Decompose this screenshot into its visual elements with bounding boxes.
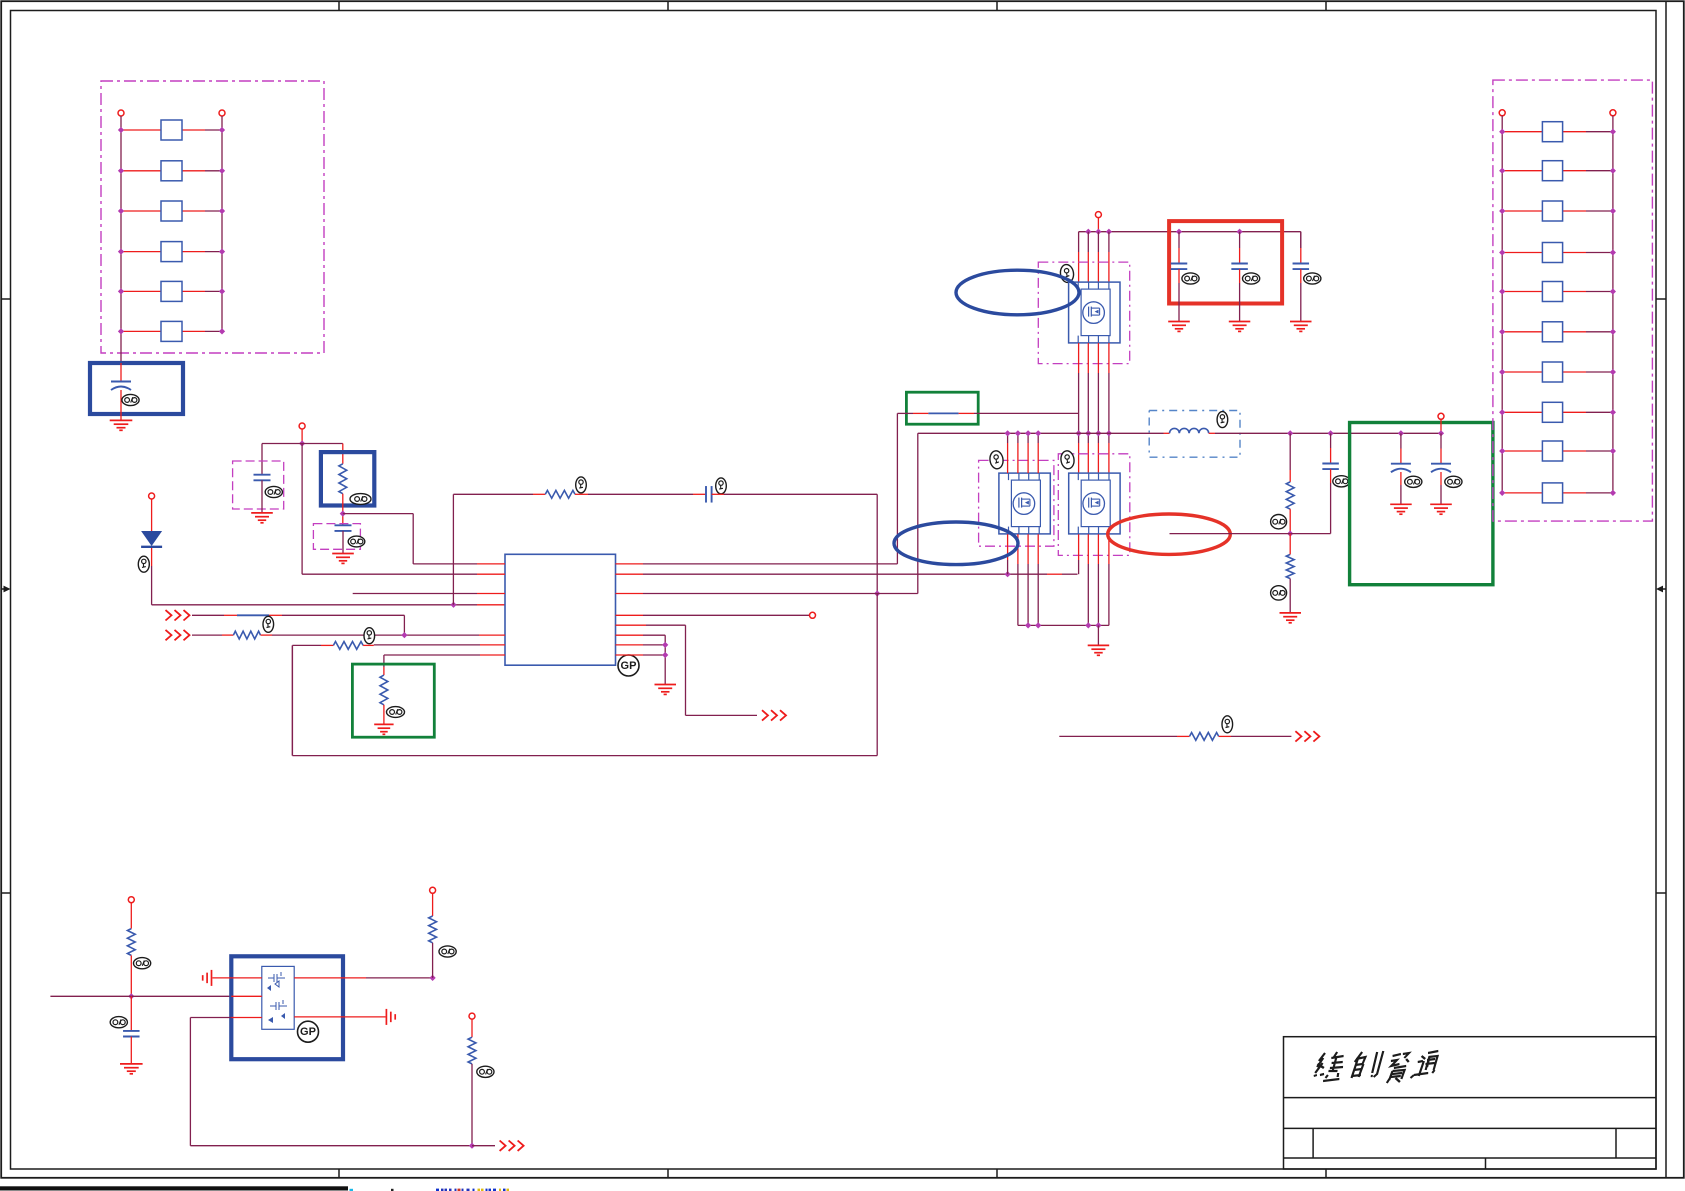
- resistor ladder dashed box RN2: [1493, 80, 1653, 521]
- capacitor C3 dashed box: [313, 524, 360, 550]
- resistor R15: [121, 290, 161, 292]
- terminal P8: [1499, 110, 1505, 116]
- page right margin line: [1665, 1, 1667, 1178]
- terminal P6: [1095, 212, 1101, 218]
- ground GND12: [1430, 503, 1452, 505]
- capacitor C4: [705, 486, 707, 503]
- junction JC1: [1176, 229, 1182, 235]
- label R3: [576, 477, 587, 493]
- junction J2: [340, 510, 346, 516]
- ground GND9: [1290, 321, 1312, 323]
- title block: [1284, 1037, 1657, 1169]
- label C3 GP: [348, 536, 365, 547]
- resistor R11: [121, 129, 161, 131]
- bottom clipped text fragment: [350, 1189, 354, 1191]
- inductor L1: [1164, 432, 1170, 434]
- wire bus to ground: [1097, 625, 1099, 645]
- wire pin R2 gate net: [616, 573, 644, 575]
- resistor R6: [383, 667, 385, 675]
- resistor R16: [121, 330, 161, 332]
- junction JM6: [1015, 430, 1021, 436]
- label R7 TW: [1271, 515, 1287, 529]
- label R2 GP: [350, 494, 371, 505]
- label C9 GP: [1405, 476, 1422, 487]
- label R6 GP: [387, 707, 405, 718]
- capacitor C2: [254, 474, 271, 476]
- junction J11: [1287, 530, 1293, 536]
- resistor R4: [192, 634, 222, 636]
- ground GND2: [251, 512, 273, 514]
- resistor R2: [339, 464, 347, 494]
- wire Q3 gate pin: [1078, 534, 1080, 560]
- ground GND8: [1229, 321, 1251, 323]
- IC U1: [505, 554, 616, 665]
- junction ladder2 L10: [1499, 490, 1505, 496]
- wire Q3 source pins: [1087, 534, 1089, 564]
- transistor Q1 dashed box: [1038, 262, 1129, 364]
- ferrite bead FB2: [897, 412, 913, 414]
- offpage arrows A5: [500, 1141, 506, 1151]
- transistor Q3 dashed box: [1058, 454, 1130, 556]
- offpage arrows A3: [166, 630, 172, 640]
- junction JC2: [1236, 229, 1242, 235]
- junction J5: [1004, 571, 1010, 577]
- wire Q1-Q3 column pins: [1078, 343, 1080, 373]
- junction JM7: [1025, 430, 1031, 436]
- label U2 GP: [298, 1021, 319, 1042]
- annotation box green G1: [352, 664, 434, 737]
- offpage arrows A2: [166, 610, 172, 620]
- wire RC riser left: [452, 494, 454, 605]
- offpage arrows A4: [1295, 731, 1301, 741]
- junction J3: [450, 602, 456, 608]
- capacitor C7: [1300, 232, 1302, 248]
- wire RC left: [453, 493, 533, 495]
- capacitor C1: [120, 363, 122, 382]
- resistor R26: [1502, 331, 1542, 333]
- frame zone ticks: [338, 1, 340, 10]
- junction JT1: [1085, 229, 1091, 235]
- wire to offpage A5: [472, 1145, 495, 1147]
- junction ladder L3: [118, 208, 124, 214]
- capacitor C9: [1400, 433, 1402, 448]
- annotation box blue B3: [231, 956, 343, 1059]
- label R8 TW: [1271, 586, 1287, 600]
- junction J1: [299, 440, 305, 446]
- junction JB1: [1025, 622, 1031, 628]
- wire U2 pin left1: [212, 977, 231, 979]
- wire Q2 gate pin: [1007, 534, 1009, 560]
- terminal P10: [128, 897, 134, 903]
- resistor R21: [1502, 131, 1542, 133]
- wire pin R8: [616, 654, 644, 656]
- frame center arrow right: [1656, 586, 1666, 593]
- junction JO2: [1438, 430, 1444, 436]
- wire diode anode: [151, 499, 153, 531]
- junction ladder2 L5: [1499, 288, 1505, 294]
- wire pin R3 switch node: [616, 593, 644, 595]
- wire bus bottom left: [50, 995, 131, 997]
- wire U2 pin right2: [294, 1016, 343, 1018]
- junction JM4: [1106, 430, 1112, 436]
- terminal P12: [469, 1013, 475, 1019]
- label Q1 GP: [1059, 264, 1074, 284]
- inductor L1 dashed box: [1149, 411, 1240, 458]
- wire C4 right: [712, 493, 724, 495]
- junction ladder2 L6: [1499, 329, 1505, 335]
- transistor Q1: [1069, 282, 1120, 343]
- ground GND11: [1390, 503, 1412, 505]
- junction ladder2 L9: [1499, 448, 1505, 454]
- resistor R210: [1502, 492, 1542, 494]
- title text Wistron CJK: [1313, 1052, 1345, 1081]
- resistor ladder dashed box RN1: [101, 81, 324, 353]
- capacitor C8: [1330, 433, 1332, 448]
- label C7 GP: [1304, 273, 1321, 284]
- wire pin R7: [616, 644, 644, 646]
- resistor R3: [545, 490, 575, 498]
- annotation box blue B2: [321, 452, 374, 505]
- annotation box red RB1: [1169, 221, 1282, 303]
- ground GND4: [655, 684, 677, 686]
- junction J9: [1287, 430, 1293, 436]
- resistor R7: [1289, 433, 1291, 470]
- wire pin R6: [616, 634, 644, 636]
- wire diode cathode: [151, 548, 153, 566]
- wire pin L3 stub: [477, 593, 505, 595]
- resistor R8: [1289, 534, 1291, 548]
- junction ladder L6: [118, 328, 124, 334]
- resistor R25: [1502, 291, 1542, 293]
- junction JB2: [1035, 622, 1041, 628]
- label R10 GP: [134, 958, 151, 969]
- resistor R24: [1502, 252, 1542, 254]
- wire left rail: [120, 116, 122, 363]
- junction JM2: [1085, 430, 1091, 436]
- label C1 GP: [122, 394, 139, 405]
- label FB1: [263, 616, 274, 632]
- wire U2 pin right1: [294, 977, 343, 979]
- label C10 GP: [1445, 476, 1462, 487]
- wire source ground bus: [1018, 624, 1109, 626]
- junction ladder L4: [118, 248, 124, 254]
- junction ladder2 L3: [1499, 208, 1505, 214]
- wire R3 to C4: [575, 493, 588, 495]
- ground GND1: [110, 419, 133, 421]
- terminal P3: [299, 423, 305, 429]
- wire feedback stub: [1170, 533, 1291, 535]
- junction J13: [429, 975, 435, 981]
- bottom black bar: [0, 1186, 348, 1190]
- wire U2 pin left3: [231, 1017, 261, 1019]
- resistor R23: [1502, 210, 1542, 212]
- junction J8: [401, 632, 407, 638]
- ground GND6: [1088, 644, 1110, 646]
- junction JM8: [1035, 430, 1041, 436]
- junction JO1: [1398, 430, 1404, 436]
- annotation box green G2: [906, 392, 978, 424]
- terminal P2: [219, 110, 225, 116]
- annotation ellipse blue E1: [956, 270, 1079, 315]
- junction ladder L2: [118, 168, 124, 174]
- wire net DIODE to IC pin4: [152, 604, 454, 606]
- label C6 GP: [1243, 273, 1260, 284]
- terminal P4: [149, 493, 155, 499]
- wire pin R5 to offpage: [616, 624, 647, 626]
- terminal P7: [1438, 413, 1444, 419]
- diode D1: [141, 531, 162, 546]
- wire pin L1: [477, 563, 505, 565]
- terminal P9: [1610, 110, 1616, 116]
- resistor R28: [1502, 411, 1542, 413]
- IC U2 inner: [262, 966, 294, 1029]
- wire top bus: [1079, 231, 1301, 233]
- svg-text:GP: GP: [621, 660, 637, 672]
- junction J14: [469, 1143, 475, 1149]
- capacitor C2 dashed box: [233, 461, 284, 509]
- annotation box green G3: [1350, 423, 1493, 585]
- wire to cap C2: [262, 443, 302, 445]
- junction JB4: [1095, 622, 1101, 628]
- resistor R9: [1059, 735, 1177, 737]
- junction J4: [874, 590, 880, 596]
- ground GND5: [374, 723, 393, 725]
- wire Q2 source pins: [1017, 534, 1019, 564]
- wire J2 to pin1 riser: [343, 513, 413, 515]
- resistor R13: [121, 210, 161, 212]
- frame center arrow left: [1, 586, 10, 593]
- resistor R12: [121, 170, 161, 172]
- label R9: [1222, 716, 1233, 733]
- wire pin L6: [480, 644, 505, 646]
- terminal P11: [430, 887, 436, 893]
- junction JM5: [1004, 430, 1010, 436]
- resistor R11: [432, 893, 434, 916]
- node switch bus: [918, 432, 1164, 434]
- wire pin L5: [479, 634, 505, 636]
- junction ladder2 L1: [1499, 129, 1505, 135]
- ground GND3: [332, 553, 354, 555]
- transistor Q2 dashed box: [979, 460, 1054, 546]
- wire pin L2: [477, 573, 505, 575]
- junction ladder2 L7: [1499, 369, 1505, 375]
- label R12 GP: [477, 1066, 494, 1077]
- label U1 GP: [618, 655, 639, 676]
- junction JB3: [1085, 622, 1091, 628]
- capacitor C5: [1178, 232, 1180, 248]
- chassis ground CH2: [385, 1009, 387, 1025]
- wire top bus corner: [1300, 232, 1302, 248]
- resistor R29: [1502, 450, 1542, 452]
- label R11 GP: [439, 946, 456, 957]
- wire R2 bottom: [342, 494, 344, 526]
- junction J10: [1327, 430, 1333, 436]
- svg-text:GP: GP: [300, 1026, 316, 1038]
- capacitor C10: [1440, 433, 1442, 448]
- label Q2 GP: [989, 450, 1004, 470]
- capacitor C3: [335, 524, 352, 526]
- label C2 GP: [265, 486, 282, 497]
- junction J6: [662, 642, 668, 648]
- wire terminal stub: [301, 429, 303, 444]
- junction ladder2 L2: [1499, 168, 1505, 174]
- ground GND10: [1280, 612, 1302, 614]
- junction ladder2 L8: [1499, 409, 1505, 415]
- wire vin stub: [1097, 217, 1099, 231]
- wire U2 pin left2: [231, 995, 261, 997]
- label C11 LP: [110, 1017, 127, 1028]
- wire pin L7: [480, 654, 505, 656]
- wire Q2 drain pins: [1007, 433, 1009, 443]
- junction JM1: [1075, 430, 1081, 436]
- junction JT3: [1106, 229, 1112, 235]
- terminal P5: [810, 612, 816, 618]
- resistor R27: [1502, 371, 1542, 373]
- resistor R10: [130, 903, 132, 929]
- label Q3 GP: [1060, 450, 1075, 470]
- chassis ground CH1: [211, 970, 213, 986]
- resistor R14: [121, 251, 161, 253]
- junction J7: [662, 652, 668, 658]
- transistor Q3: [1069, 473, 1120, 534]
- resistor R5: [292, 644, 321, 646]
- resistor R12: [471, 1019, 473, 1037]
- ferrite bead FB1: [192, 614, 224, 616]
- wire RC down right: [876, 494, 878, 593]
- wire right rail 2: [1612, 116, 1614, 493]
- wire to resistor box: [302, 443, 343, 445]
- junction JT2: [1095, 229, 1101, 235]
- label D1: [138, 556, 149, 572]
- junction J12: [128, 993, 134, 999]
- wire output bus: [1290, 432, 1441, 434]
- label C5 GP: [1182, 273, 1199, 284]
- terminal P1: [118, 110, 124, 116]
- annotation box blue B1: [90, 363, 183, 414]
- wire left rail 2: [1501, 116, 1503, 493]
- offpage arrows A1: [762, 710, 768, 720]
- wire right rail: [221, 116, 223, 331]
- label C4: [716, 478, 727, 494]
- annotation ellipse red E3: [1108, 514, 1231, 554]
- label C8 GP: [1333, 476, 1350, 487]
- IC U2 glyphs: [268, 972, 285, 987]
- annotation ellipse blue E2: [894, 522, 1018, 565]
- wire Q1 drain pins: [1078, 232, 1080, 252]
- capacitor C6: [1239, 232, 1241, 248]
- junction JM3: [1095, 430, 1101, 436]
- label R5: [364, 628, 375, 644]
- ground GND7: [1168, 321, 1190, 323]
- capacitor C11: [130, 996, 132, 1031]
- wire RC bottom loop: [876, 594, 878, 756]
- resistor R22: [1502, 170, 1542, 172]
- wire pin R1: [616, 563, 644, 565]
- wire pin R4 to test point: [616, 614, 644, 616]
- wire vout stub: [1440, 419, 1442, 433]
- junction ladder L1: [118, 127, 124, 133]
- junction ladder2 L4: [1499, 249, 1505, 255]
- transistor Q2: [999, 473, 1050, 534]
- junction ladder L5: [118, 288, 124, 294]
- wire R5 left drop: [291, 645, 293, 755]
- label L1: [1217, 412, 1228, 428]
- ground GND13: [120, 1063, 143, 1065]
